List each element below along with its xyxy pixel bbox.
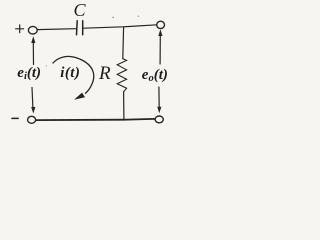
svg-text:eo(t): eo(t) xyxy=(142,67,168,84)
svg-text:ei(t): ei(t) xyxy=(17,65,41,82)
svg-text:C: C xyxy=(74,0,87,20)
svg-text:R: R xyxy=(98,63,111,84)
svg-text:i(t): i(t) xyxy=(60,65,80,81)
